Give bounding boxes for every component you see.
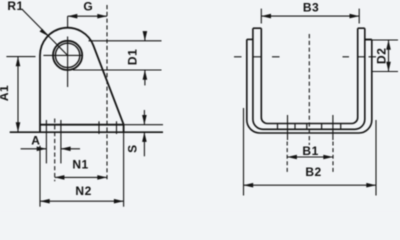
D2 bottom extension line [371,71,398,73]
D1 dimension line lower tail [144,70,146,85]
B1 left dashed extension [286,142,288,173]
A1 dimension line [17,57,19,132]
svg-text:B3: B3 [303,1,319,15]
left lug top cap [253,27,261,29]
horizontal centerline tick inside left [272,56,280,58]
svg-text:S: S [125,144,139,153]
flange slot divider 1 [277,124,279,130]
vertical center dashed line [308,34,310,145]
hole vertical centerline [67,37,69,88]
mounting surface line (long bottom line) [10,131,163,133]
A dimension right tail [61,148,80,150]
flange slot divider 4 [321,124,323,130]
A dimension left tail [21,148,47,150]
svg-text:D1: D1 [126,49,140,65]
flange slot divider 2 [294,124,296,130]
D1 dimension line upper tail [144,31,146,40]
A1 top extension line [6,56,35,58]
A left arrow (pointing right) [37,147,47,152]
S top arrow (pointing down) [142,115,147,125]
D1 bottom arrow (pointing up) [143,70,148,80]
B1 dimension line [287,156,333,158]
flange slot divider 5 [340,124,342,130]
B3 left arrow [261,14,271,19]
D2 dimension line [388,40,390,72]
B3 left extension line [260,9,262,24]
base slot edge line (left) / A extension [45,120,47,163]
hole inner circle [55,43,79,67]
B3 right extension line [358,9,360,24]
svg-text:A1: A1 [0,85,11,101]
rear dashed centerline [106,5,108,181]
S extension of base top edge [124,124,163,126]
R1 leader arrow [40,29,49,36]
left slot centerline tick [287,115,289,140]
B2 dimension line [244,184,377,186]
hole horizontal centerline [43,54,81,56]
B2 right arrow [366,183,376,188]
G dimension line [68,15,107,17]
N1 right arrow [97,175,107,180]
N1 left arrow [55,175,65,180]
N2 left extension line [39,146,41,207]
hole outer circle [53,41,82,70]
R1 leader line to hole center [22,10,67,56]
D1 bottom extension line [73,69,162,71]
base right edge [123,124,125,132]
A1 top arrow [16,57,21,67]
D2 top extension line [365,39,398,41]
svg-text:B2: B2 [305,165,321,179]
svg-text:N1: N1 [72,157,88,171]
B1 left arrow [287,155,297,160]
channel outer contour [247,39,372,133]
S bottom arrow (pointing up) [142,132,147,142]
B1 right dashed extension [332,142,334,173]
horizontal centerline tick across left lug [253,56,261,58]
S dimension upper tail [143,110,145,125]
base top edge [40,124,124,126]
B1 right arrow [323,155,333,160]
horizontal centerline tick far left [234,56,242,58]
B2 left extension line [243,108,245,196]
rear slot edge mark right [116,121,118,134]
bracket outline: left edge, top arc R1, rear diagonal [40,28,124,132]
channel inner (mid) contour [253,28,365,129]
A right arrow (pointing left) [61,147,71,152]
G right arrow [97,14,107,19]
svg-text:R1: R1 [7,0,23,13]
N2 right extension line [123,132,125,207]
N2 dimension line [40,200,124,202]
G extension line [67,16,69,28]
base slot edge line (right) / A extension [60,120,62,163]
svg-text:D2: D2 [375,48,389,64]
horizontal centerline tick far right [369,56,377,58]
B2 left arrow [244,183,254,188]
G left arrow [68,14,78,19]
N2 right arrow [114,199,124,204]
A1 bottom arrow [16,122,21,132]
right slot centerline tick [332,115,334,140]
flange slot divider 3 [306,124,308,130]
svg-text:A: A [31,133,40,147]
N1 dimension line [55,176,107,178]
D1 top extension line [89,40,162,42]
horizontal centerline tick inside right [343,56,350,58]
rear slot edge mark left [98,121,100,134]
D1 top arrow (pointing down) [143,31,148,41]
D2 bottom arrow (pointing down) [386,62,391,72]
base slot dashed centerline [54,119,56,182]
right outer plate top cap [365,38,372,40]
svg-text:B1: B1 [302,144,318,158]
S dimension lower tail [143,132,145,156]
right lug top cap [358,27,365,29]
svg-text:G: G [83,0,93,14]
B3 dimension line [261,15,359,17]
svg-text:N2: N2 [75,184,91,198]
left outer plate top cap [247,38,253,40]
lug inner faces and flange top [261,28,357,123]
horizontal centerline tick across right lug [358,56,365,58]
B3 right arrow [350,14,360,19]
D2 top arrow (pointing up) [386,40,391,50]
N2 left arrow [40,199,50,204]
B2 right extension line [375,120,377,196]
